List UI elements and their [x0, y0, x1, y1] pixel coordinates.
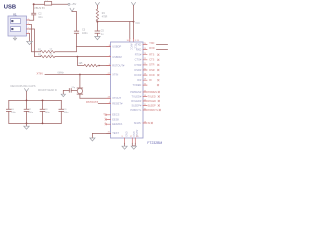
capacitor C9b [59, 100, 64, 123]
ground filter [95, 37, 100, 40]
svg-text:EEDATA: EEDATA [112, 122, 122, 126]
pin names right [130, 42, 142, 125]
wire XTOUT row [80, 97, 111, 99]
pin numbers right [144, 43, 147, 124]
wire to VBUS node [33, 4, 35, 13]
pin stubs bottom [125, 138, 136, 143]
svg-text:AVCC: AVCC [130, 44, 133, 51]
svg-text:RXLED: RXLED [148, 100, 157, 103]
capacitor C6 [6, 100, 11, 123]
wire node to C5 [96, 22, 98, 31]
svg-text:RESET#: RESET# [112, 102, 123, 106]
svg-text:100n: 100n [45, 112, 51, 114]
svg-text:CTS: CTS [149, 59, 154, 62]
node dots cap bank [26, 100, 28, 102]
svg-text:1k5: 1k5 [79, 62, 84, 65]
capacitor C2 [32, 13, 36, 15]
svg-text:+5V: +5V [71, 2, 76, 6]
svg-text:RSTOUT#: RSTOUT# [112, 63, 125, 67]
svg-text:DTR: DTR [149, 64, 154, 67]
node dot R3 right [98, 65, 100, 67]
svg-text:XTIN: XTIN [37, 72, 43, 76]
svg-text:USB: USB [4, 4, 16, 10]
wire arrow to R4 [96, 5, 98, 9]
wire TEST to gnd [92, 133, 110, 137]
svg-text:C9: C9 [64, 109, 68, 111]
svg-text:RTS#: RTS# [135, 53, 142, 57]
supply arrow +5V [70, 8, 74, 11]
svg-text:RI#: RI# [137, 78, 142, 82]
wire AVCC vertical [129, 22, 131, 39]
svg-text:PWREN#: PWREN# [130, 90, 142, 94]
svg-text:C3: C3 [82, 29, 86, 32]
node junction xtal top [79, 74, 81, 76]
wire VCC vertical [133, 5, 135, 38]
wire arrow to rail [26, 92, 28, 101]
svg-text:SLEEP: SLEEP [148, 104, 156, 107]
svg-text:TXLED#: TXLED# [131, 94, 141, 98]
svg-text:RTS: RTS [149, 54, 154, 57]
svg-text:VBUS 5V: VBUS 5V [34, 6, 45, 10]
wire D+ from pin2 down [30, 29, 41, 57]
resistor R4 470R [96, 9, 98, 21]
crystal Q1 [77, 75, 83, 99]
svg-text:C6: C6 [11, 109, 15, 111]
capacitor C3 100n [74, 31, 78, 33]
svg-text:CTS#: CTS# [135, 58, 142, 62]
svg-text:PWRCTL: PWRCTL [130, 108, 142, 112]
wire C5 to gnd [96, 34, 98, 37]
svg-text:TXDEN: TXDEN [133, 83, 142, 87]
node junction on USBDM line [77, 56, 79, 58]
svg-text:XTIN: XTIN [112, 72, 118, 76]
wire XTIN row [45, 74, 111, 76]
wire bead to +5V [52, 3, 68, 5]
wire RXD out [157, 49, 168, 51]
wire R2 to USBDM pin [55, 56, 111, 58]
wire D- from pin3 down [30, 25, 41, 52]
capacitor C9 22p [69, 89, 71, 93]
svg-text:100n: 100n [28, 112, 34, 114]
cap bank rails [9, 100, 62, 123]
svg-text:TEST: TEST [112, 131, 119, 135]
svg-text:100n: 100n [64, 112, 70, 114]
pin names left [112, 44, 125, 134]
svg-text:SI: SI [148, 122, 151, 125]
svg-text:XTOUT: XTOUT [112, 96, 121, 100]
svg-text:22p: 22p [72, 87, 76, 89]
svg-text:RI: RI [149, 79, 152, 82]
ground bottom left [122, 146, 127, 149]
pin stub top VCC [133, 39, 135, 43]
svg-text:DCD: DCD [149, 74, 155, 77]
svg-text:RXLED#: RXLED# [131, 99, 142, 103]
wire gnd bottom left [124, 143, 126, 146]
svg-text:SLEEP#: SLEEP# [131, 103, 141, 107]
svg-text:100n: 100n [11, 112, 17, 114]
ferrite bead L2 [45, 2, 52, 6]
resistor R3 1k5 [84, 64, 98, 66]
supply arrow VCC filter [95, 3, 99, 6]
resistor R2 27 [41, 55, 55, 57]
wire gnd bottom right [132, 143, 135, 146]
wire junction to R3 [78, 57, 85, 66]
svg-text:EECS: EECS [112, 113, 119, 117]
svg-text:10n: 10n [38, 16, 43, 19]
wire R3 to RSTOUT pin [99, 65, 111, 67]
ground below USB [27, 41, 33, 44]
op IC1 FT232BM box [111, 42, 144, 138]
svg-text:VCC: VCC [135, 23, 140, 25]
svg-text:RXD: RXD [149, 47, 154, 50]
USB connector X1 [8, 16, 27, 36]
svg-text:GND: GND [124, 131, 127, 137]
svg-text:C7: C7 [28, 109, 32, 111]
node AVCC filter junction [96, 21, 98, 23]
pin stub top AVCC [129, 39, 131, 43]
node VBUS junction [33, 3, 35, 5]
pin names top vertical [130, 44, 137, 51]
svg-text:SI/WU: SI/WU [134, 121, 142, 125]
pin stubs left [107, 47, 111, 134]
node junction at VCC vertical [133, 21, 135, 23]
svg-text:TXLED: TXLED [148, 95, 156, 98]
capacitor C8 [40, 100, 45, 123]
svg-text:USBDP: USBDP [112, 44, 121, 48]
pin numbers left [103, 45, 111, 134]
svg-text:1u: 1u [101, 34, 104, 36]
svg-text:VCC: VCC [133, 44, 136, 49]
svg-text:DTR#: DTR# [135, 63, 142, 67]
pin stubs right [143, 45, 147, 124]
svg-text:470R: 470R [102, 17, 108, 19]
capacitor C5 1u [95, 31, 100, 33]
wire +5V to C3 [72, 12, 77, 31]
USB pin stubs [27, 20, 30, 34]
wire VBUS to bead [34, 3, 45, 5]
net labels right [148, 42, 159, 125]
wire R1 to corner [55, 47, 77, 52]
wire RESET row [98, 103, 110, 105]
supply arrow cap bank [25, 89, 29, 92]
svg-text:C5: C5 [101, 30, 105, 32]
svg-text:C8: C8 [45, 109, 49, 111]
svg-text:FT232BM: FT232BM [147, 141, 162, 145]
wire TXD out [157, 44, 168, 46]
svg-text:TXD: TXD [149, 42, 154, 45]
svg-text:PWREN: PWREN [148, 91, 158, 94]
svg-text:RSTOUT#: RSTOUT# [86, 100, 99, 104]
svg-text:R4: R4 [102, 13, 106, 15]
wire AVCC row [97, 21, 133, 23]
ground xtal cap [61, 94, 65, 97]
svg-text:USBDM: USBDM [112, 55, 121, 59]
USB shield gnd [13, 36, 16, 40]
wire GND from pin4 [29, 34, 31, 42]
wire C3 to USBDP line [76, 34, 78, 47]
nc marks right [151, 54, 161, 124]
svg-text:EESK: EESK [112, 117, 119, 121]
pin names bottom vertical [124, 130, 138, 137]
svg-text:GND: GND [132, 131, 135, 137]
wire R4 to node [96, 20, 98, 23]
nc marks eeprom pins [105, 114, 107, 125]
wire VBUS from pin1 [30, 15, 34, 20]
svg-text:DECOUPLING CAPS: DECOUPLING CAPS [11, 84, 36, 88]
resistor R1 27 [41, 51, 55, 53]
ground cap bank [24, 126, 29, 129]
svg-text:PWRCTL: PWRCTL [148, 109, 159, 112]
svg-text:100n: 100n [82, 32, 88, 35]
svg-text:DSR#: DSR# [134, 68, 141, 72]
capacitor C7 [24, 100, 29, 123]
wire rail to gnd [26, 123, 28, 126]
svg-text:DCD#: DCD# [134, 73, 142, 77]
svg-text:DSR: DSR [149, 69, 154, 72]
ground bottom right [131, 146, 136, 149]
wire to USBDP pin [77, 46, 111, 48]
ground TEST [90, 138, 95, 141]
supply arrow VCC top [132, 3, 136, 6]
node +5V pin circle [68, 3, 70, 5]
svg-text:MOUNT NEAR IC: MOUNT NEAR IC [38, 89, 57, 92]
